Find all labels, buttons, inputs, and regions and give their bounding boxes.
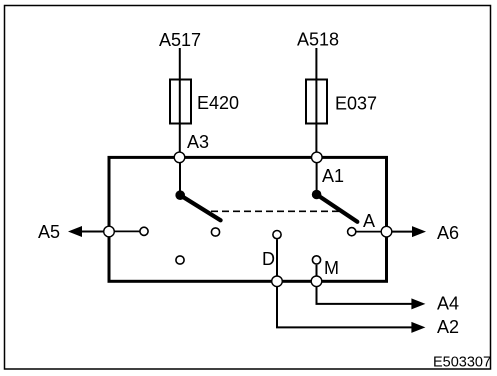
contact circle M — [312, 256, 320, 264]
svg-text:A5: A5 — [38, 222, 60, 242]
svg-text:A518: A518 — [297, 30, 339, 50]
wire from A518 through fuse E037 to node A1 — [315, 48, 317, 157]
switch pivot right — [312, 190, 322, 200]
node left edge — [104, 226, 115, 237]
wire A3 node to left pivot — [179, 157, 181, 195]
wire D contact down to A2 corner — [276, 239, 278, 327]
svg-text:M: M — [324, 258, 339, 278]
wire A4 horizontal — [316, 303, 413, 305]
svg-text:E420: E420 — [197, 93, 239, 113]
wire left node to contact — [109, 230, 144, 232]
fuse E420 — [170, 80, 191, 124]
node A3 — [174, 152, 185, 163]
svg-text:A2: A2 — [437, 317, 459, 337]
svg-text:A1: A1 — [322, 166, 344, 186]
arrow A6 — [412, 226, 426, 237]
arrow A5 — [68, 226, 82, 237]
wire from A517 through fuse E420 to node A3 — [179, 48, 181, 157]
arrow A2 — [411, 322, 425, 333]
contact circle A — [348, 228, 356, 236]
switch pivot left — [175, 190, 185, 200]
contact circle lower left — [176, 256, 184, 264]
svg-text:A6: A6 — [437, 223, 459, 243]
node M — [311, 276, 322, 287]
wire A5 to left node — [80, 231, 109, 233]
wire M contact down to A4 corner — [316, 265, 318, 304]
switch arm left — [180, 195, 220, 220]
svg-text:E503307: E503307 — [433, 355, 491, 371]
fuse E037 — [306, 80, 327, 124]
contact circle below left arm — [211, 228, 219, 236]
node D — [272, 276, 283, 287]
svg-text:D: D — [262, 249, 275, 269]
switch arm right — [317, 195, 358, 222]
contact circle D — [273, 231, 281, 239]
svg-text:A: A — [363, 211, 375, 231]
svg-text:E037: E037 — [335, 94, 377, 114]
wire right node to A6 — [387, 231, 414, 233]
svg-text:A3: A3 — [187, 132, 209, 152]
svg-text:A517: A517 — [159, 30, 201, 50]
wire contact A to right node — [352, 231, 387, 233]
dashed link line — [207, 210, 340, 212]
contact circle left — [140, 227, 148, 235]
arrow A4 — [411, 298, 425, 309]
wire A2 horizontal — [276, 326, 412, 328]
node right edge — [381, 226, 392, 237]
wire A1 node to right pivot — [316, 157, 318, 194]
relay box — [109, 157, 387, 281]
node A1 — [312, 152, 323, 163]
svg-text:A4: A4 — [437, 294, 459, 314]
